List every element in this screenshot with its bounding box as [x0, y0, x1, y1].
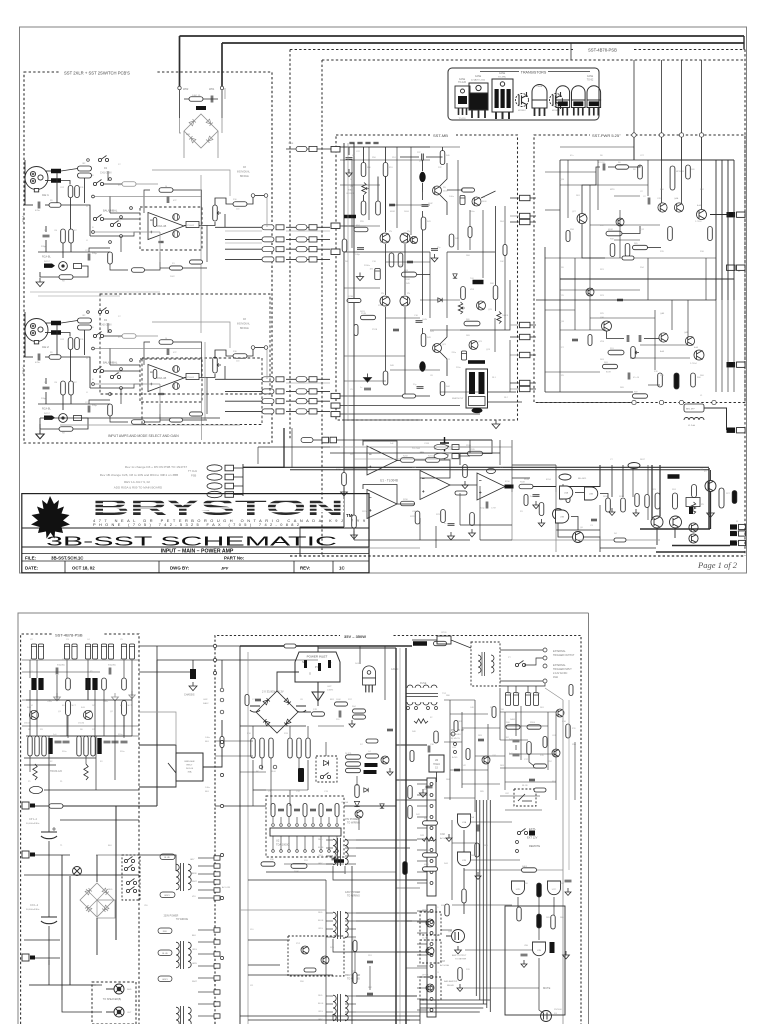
- wire p2 dens h 3: [22, 725, 139, 727]
- wire p2 bs h 3: [248, 939, 290, 941]
- capacitor C p2 x2: [387, 729, 393, 731]
- wire mb dens h 8: [386, 317, 420, 319]
- wire r55 v: [363, 195, 365, 201]
- module box mute circuit: [505, 906, 565, 1015]
- wire pwr dens v 15: [733, 300, 735, 392]
- switch RL02 a: [124, 857, 134, 863]
- switch RL02 c: [126, 879, 136, 885]
- wire th wires2: [221, 90, 223, 118]
- winding TX 15V primary: [333, 839, 336, 865]
- label oval BLU2: [158, 950, 172, 956]
- wire ch2x h 196: [95, 348, 201, 350]
- wire p2 dens v 18: [270, 758, 272, 810]
- svg-text:7000'S: 7000'S: [502, 315, 509, 317]
- resistor R 4000: [423, 867, 438, 871]
- wire pad wire r 5: [530, 354, 536, 356]
- wire cn stem2: [48, 926, 50, 965]
- resistor R og1: [635, 494, 639, 507]
- label oval BLUE: [160, 854, 175, 860]
- resistor R pu: [434, 731, 438, 743]
- resistor R12 CH1: [68, 186, 73, 198]
- svg-text:BLK: BLK: [108, 845, 113, 847]
- wire left feed: [35, 805, 49, 807]
- wire ch1x h 196: [95, 196, 201, 198]
- wire rt01 w: [412, 639, 437, 641]
- resistor R536: [455, 491, 467, 495]
- wire mb dens h 6: [344, 287, 380, 289]
- wire pwr dens h 2: [560, 184, 648, 186]
- wire main h2 CH1: [45, 204, 49, 206]
- wire bundle h 2: [420, 1007, 483, 1009]
- wire p2 lm 3: [156, 646, 158, 660]
- wire pwr dens v 9: [671, 300, 673, 330]
- wire p2 dens h 9: [240, 645, 318, 647]
- connector strip L row 6: [214, 928, 220, 932]
- svg-text:RA02: RA02: [203, 702, 209, 705]
- connector strip L row 13: [214, 1014, 220, 1018]
- terminal t5 CH1: [109, 241, 112, 244]
- ground gnd og1: [611, 508, 613, 512]
- resistor R feedback 470 CH2: [159, 340, 173, 345]
- wire pad wire r 6: [530, 382, 536, 384]
- svg-text:TO-126: TO-126: [458, 118, 466, 120]
- resistor R out1: [655, 493, 660, 509]
- wire left mid wire: [35, 854, 70, 856]
- wire out rail drop heavy: [708, 468, 710, 529]
- svg-text:BLUE: BLUE: [318, 1003, 324, 1005]
- svg-text:CH-1: CH-1: [21, 215, 25, 222]
- dashed box CH2 DOA outer: [142, 358, 262, 425]
- capacitor C tda 1: [278, 809, 284, 811]
- wire p2 lb h 5: [63, 805, 139, 807]
- wire bus to MB row 0: [286, 226, 330, 228]
- resistor R mid col b 0: [288, 738, 292, 758]
- wire p2 dens h 8: [296, 659, 318, 661]
- wire p2 mr h 5: [505, 781, 556, 783]
- resistor R mid col a 2: [269, 738, 273, 758]
- wire main h CH2: [25, 356, 33, 358]
- svg-text:W01: W01: [209, 87, 215, 91]
- label oval GREY: [160, 892, 175, 898]
- wire psb stack wire 1: [234, 476, 244, 478]
- wire box1 h 2: [107, 171, 109, 181]
- wire p2 mh 3: [248, 974, 333, 976]
- connector P06 row 0 CH1: [262, 225, 274, 230]
- wire strip L wire 6: [198, 929, 214, 931]
- wire tda pin wire 8: [336, 817, 338, 823]
- wire p2 mv 3: [359, 646, 361, 664]
- wire mb dens v 1: [368, 147, 370, 220]
- pin 7 U2: [320, 824, 323, 827]
- wire cn1 lead 8: [417, 998, 427, 1000]
- relay module UNITE PLT: [466, 369, 488, 408]
- wire cn1 lead 2: [417, 932, 427, 934]
- wire bundle h 3: [420, 1011, 480, 1013]
- transistor driver Q mid A: [553, 509, 564, 520]
- connector P06 row 1 CH1: [262, 237, 274, 242]
- wire p2 mh 1: [248, 879, 326, 881]
- ground gnd left col: [39, 430, 41, 434]
- wire strip L wire 7: [198, 941, 214, 943]
- resistor dark bank b 1: [92, 678, 97, 690]
- resistor RB01: [196, 106, 206, 110]
- resistor R top mid2: [434, 641, 447, 645]
- connector page2 left 3: [22, 954, 29, 961]
- resistor R 1K2: [346, 768, 361, 772]
- capacitor C20: [627, 335, 629, 342]
- svg-text:RED: RED: [108, 889, 113, 891]
- wire PWR top drop 2: [681, 137, 683, 160]
- wire p2 lv 3: [114, 736, 116, 780]
- wire p2 mr h 0: [500, 711, 556, 713]
- wire reg rail: [396, 799, 436, 801]
- diode D mb 1: [438, 298, 442, 302]
- wire heavy mid v2: [405, 648, 407, 1024]
- wire trig net2: [515, 712, 517, 736]
- transistor Q6 PN5551A: [400, 296, 410, 306]
- resistor R mr 1: [543, 737, 547, 748]
- resistor P12B DIR2: [361, 315, 376, 319]
- connector P06 row 0 CH2: [262, 377, 274, 382]
- resistor R mb x1: [468, 227, 472, 238]
- wire p2 dens v 1: [36, 660, 38, 678]
- wire ch1 out v: [206, 226, 208, 263]
- connector page2 left 1: [22, 802, 29, 809]
- svg-text:R61?: R61?: [640, 459, 646, 461]
- svg-text:JPV: JPV: [221, 567, 229, 571]
- wire ch2x pill col: [175, 414, 177, 426]
- svg-text:FILE:: FILE:: [25, 556, 37, 561]
- wire mb dens v 0: [351, 160, 353, 248]
- wire fb loop CH1: [144, 190, 150, 213]
- capacitor C318 dark: [440, 437, 449, 451]
- capacitor dark mid: [298, 768, 304, 782]
- wire heavy h mid2: [396, 744, 427, 746]
- resistor R05 100R: [633, 245, 648, 249]
- capacitor C7 22P: [422, 154, 424, 161]
- svg-text:U7C: U7C: [552, 889, 557, 891]
- wire p2 lb v 6: [114, 700, 116, 736]
- wire R out a CH2: [61, 321, 78, 324]
- resistor R230 13K: [401, 501, 415, 506]
- wire tda pin wire 4: [304, 817, 306, 823]
- wire p2b h 7: [444, 797, 475, 799]
- svg-text:AC LOW: AC LOW: [222, 886, 230, 889]
- resistor R15: [668, 227, 673, 241]
- wire p2 mr v 4: [574, 742, 576, 800]
- connector MB-PWR pad 0: [520, 195, 531, 200]
- wire TX 120V lead L 1: [326, 920, 333, 922]
- svg-text:L1 2uH: L1 2uH: [688, 425, 695, 427]
- wire xlr to R CH2: [45, 322, 51, 324]
- svg-text:220p: 220p: [92, 405, 98, 407]
- resistor R input b CH1: [51, 178, 61, 183]
- wire mb long v7: [422, 211, 424, 217]
- connector P03 row 1: [296, 237, 307, 242]
- wire p2 dens v 0: [29, 660, 31, 678]
- resistor R mid col a 1: [260, 738, 264, 758]
- capacitor C pwr x1: [617, 299, 623, 301]
- wire strip L wire 8: [198, 953, 214, 955]
- resistor R bs 2: [353, 941, 357, 952]
- svg-text:R71B: R71B: [348, 296, 354, 298]
- resistor R small dark: [689, 507, 693, 514]
- wire p10 wire: [313, 439, 322, 441]
- switch RL02 b: [124, 865, 134, 871]
- wire pwr right rail 3: [733, 160, 735, 300]
- transistor mosfet meter: [446, 930, 465, 943]
- resistor R out6: [606, 498, 611, 512]
- wire pwr right rail 1: [721, 160, 723, 300]
- wire gate v2: [463, 868, 465, 889]
- connector TB fan 1: [434, 453, 448, 459]
- gate U7A: [458, 814, 471, 828]
- wire TX 15V lead L 3: [326, 863, 333, 865]
- legend package TO-220: [469, 83, 488, 118]
- switch S1b CH2: [93, 367, 103, 373]
- wire bot dens v 4: [511, 440, 513, 492]
- svg-text:CH 2: CH 2: [42, 345, 49, 349]
- wire bot dens v 8: [647, 465, 649, 520]
- diode D bridge mid diode: [263, 698, 270, 705]
- wire pwr c27 r: [608, 166, 615, 168]
- wire c1 gnd CH1: [45, 240, 47, 252]
- svg-text:U3B: U3B: [589, 494, 594, 496]
- wire cn0 lead 9: [417, 882, 427, 884]
- ground gnd ge: [523, 960, 525, 964]
- wire og w4: [562, 484, 564, 486]
- wire trig rail: [500, 683, 545, 686]
- dashed box inner top: [322, 59, 745, 61]
- wire p2b v 4: [451, 820, 453, 900]
- Bryston maple leaf logo: [31, 496, 70, 539]
- wire TX 15V lead R 2: [345, 855, 356, 857]
- wire reg v wire: [436, 772, 438, 782]
- wire pwr dens h 10: [590, 317, 655, 319]
- svg-text:ORG: ORG: [318, 1011, 323, 1013]
- wire gray bus comp 2: [225, 242, 262, 244]
- resistor R 2K b: [346, 762, 361, 766]
- svg-text:330u: 330u: [62, 751, 66, 753]
- op-amp U1A: [367, 446, 397, 475]
- wire TX 15V lead R 3: [345, 863, 356, 865]
- wire pwr dens h 13: [630, 357, 690, 359]
- svg-text:REV 1A JULY 9, 02: REV 1A JULY 9, 02: [124, 480, 150, 484]
- svg-text:U7A: U7A: [462, 821, 467, 824]
- wire pwr v mid1: [661, 160, 663, 203]
- wire tda pin b wire 8: [336, 836, 338, 850]
- resistor R gd4: [551, 915, 555, 929]
- wire pwr dens h 4: [545, 209, 560, 211]
- capacitor C6 27p: [417, 387, 424, 389]
- svg-text:240p: 240p: [355, 254, 361, 256]
- svg-text:GREY: GREY: [164, 895, 171, 897]
- connector P03 row 0: [296, 225, 307, 230]
- wire diag to bridger: [168, 763, 176, 773]
- svg-text:TRANSISTORS: TRANSISTORS: [521, 71, 547, 75]
- capacitor Cb1: [104, 741, 111, 743]
- svg-text:U3B: U3B: [560, 517, 565, 519]
- resistor R col b dark: [97, 738, 101, 754]
- gate U7E: [533, 942, 546, 956]
- wire p2 dens h 13: [240, 771, 266, 773]
- svg-text:CASE: CASE: [587, 75, 594, 78]
- wire bot dens v 5: [555, 465, 557, 510]
- resistor R40: [440, 151, 445, 165]
- connector strip L row 4: [214, 888, 220, 892]
- IC LM7812 regulator: [429, 755, 444, 772]
- svg-text:OFFSET: OFFSET: [346, 193, 355, 195]
- switch S1a CH2: [93, 332, 103, 338]
- resistor R pwr x2: [588, 335, 592, 346]
- wire bus row 0 CH2: [215, 378, 262, 380]
- wire pwr dens v 7: [654, 310, 656, 370]
- ground gnd R537: [471, 529, 473, 533]
- wire mid rail 726: [240, 725, 306, 727]
- resistor R g2: [462, 889, 466, 903]
- svg-text:CN2: CN2: [440, 833, 445, 836]
- winding rear switch coil2: [491, 655, 494, 673]
- terminal t2 CH1: [109, 178, 112, 181]
- wire p2 lb v 4: [87, 690, 89, 700]
- svg-text:680R: 680R: [608, 229, 613, 231]
- resistor R MCT 1: [66, 701, 71, 716]
- svg-text:MOSFET: MOSFET: [518, 110, 527, 112]
- wire p2 dens h 20: [396, 951, 427, 953]
- transistor Q mid: [355, 810, 363, 818]
- resistor R out7: [621, 498, 626, 512]
- capacitor C p2 x1: [255, 699, 261, 701]
- wire ch1x v 160a: [159, 232, 161, 262]
- transistor Q27: [577, 214, 587, 224]
- svg-text:RCA-BL: RCA-BL: [42, 408, 51, 411]
- resistor R62 MPSU10: [670, 166, 675, 190]
- svg-text:TO WIRING: TO WIRING: [347, 822, 360, 825]
- ground gnd reg: [422, 789, 424, 793]
- wire u1b out: [397, 503, 415, 505]
- wire bundle v 1: [479, 800, 481, 1000]
- resistor R p2 x2: [220, 737, 224, 748]
- svg-text:BLK: BLK: [192, 935, 197, 937]
- resistor R col a dark: [48, 738, 52, 754]
- capacitor C p2b 1: [478, 739, 484, 741]
- connector MB-PWR pad 1: [520, 213, 531, 218]
- resistor VR4: [631, 347, 636, 359]
- wire tx to cn wires4: [356, 920, 412, 922]
- resistor D 7805 b: [364, 770, 377, 774]
- capacitor C16 240p: [357, 248, 364, 250]
- capacitor C 220: [339, 711, 341, 718]
- resistor R7 21K5 CH1: [69, 229, 74, 243]
- svg-text:470u: 470u: [35, 210, 41, 212]
- wire bot dens h 6: [600, 547, 656, 549]
- wire strip L wire 11: [198, 991, 214, 993]
- wire spk wires: [29, 984, 102, 986]
- resistor R 2008: [261, 862, 275, 866]
- dashed box RL02 contacts: [122, 855, 140, 900]
- wire pwr dens h 3: [614, 195, 640, 197]
- wire gate out w: [463, 903, 465, 914]
- resistor R14 CH2: [132, 420, 145, 425]
- wire bundle h 0: [420, 999, 490, 1001]
- capacitor C bs 2: [367, 993, 373, 995]
- wire tx to cn wires5: [356, 995, 417, 997]
- svg-text:EXTERNAL: EXTERNAL: [553, 650, 566, 653]
- transistor Q25: [477, 301, 486, 310]
- connector strip L row 10: [214, 976, 220, 980]
- resistor R mid col b 1: [297, 738, 301, 758]
- wire out heavy 5: [651, 465, 653, 520]
- dashed box PSB outer: [289, 50, 291, 441]
- svg-text:3B-SST.SCH.1C: 3B-SST.SCH.1C: [51, 556, 84, 561]
- capacitor C mbrow 0: [349, 142, 354, 143]
- wire out heavy 6: [659, 465, 661, 516]
- svg-text:1u: 1u: [352, 155, 354, 157]
- resistor R zig out: [691, 502, 695, 514]
- wire heavy mid v1: [395, 648, 397, 1024]
- terminal p2 t3: [220, 804, 223, 807]
- wire box1 h 3: [107, 323, 109, 333]
- resistor R mr 2: [534, 788, 546, 792]
- pin bottom 6 U2: [312, 850, 315, 853]
- wire bot dens v 6: [599, 505, 601, 537]
- resistor R50: [361, 163, 366, 177]
- wire mid connective 1: [224, 88, 226, 99]
- resistor ch2x R mid low: [190, 412, 203, 416]
- wire pad wire r 3: [530, 324, 536, 326]
- resistor R0 x: [616, 165, 629, 169]
- wire p2 gate h 2: [470, 859, 520, 861]
- capacitor C302 1u: [448, 524, 455, 526]
- wire out heavy 3: [656, 551, 745, 553]
- wire bridge out: [298, 711, 311, 713]
- capacitor C 2u2 a: [513, 740, 520, 742]
- connector strip L row 0: [214, 856, 220, 860]
- resistor R11 CH1: [75, 186, 80, 198]
- wire p1 b1 h 1: [38, 295, 120, 297]
- wire p2b v 3: [487, 724, 489, 800]
- lamp oval: [30, 786, 43, 793]
- title block row line 1: [22, 527, 369, 529]
- wire bus bend bottom: [300, 527, 344, 556]
- wire p2b v 5: [499, 688, 501, 740]
- wire main h3 CH1: [61, 205, 90, 236]
- svg-text:50,000uF/80v: 50,000uF/80v: [26, 823, 40, 825]
- wire strip L v: [224, 855, 226, 1024]
- wire p2b v 2: [474, 700, 476, 812]
- wire p2 gate h 5: [441, 929, 452, 931]
- ground gnd p2 x1: [389, 768, 391, 772]
- gate U7C: [548, 881, 561, 895]
- svg-text:N: N: [302, 660, 304, 664]
- dashed box DOA CH1: [140, 207, 202, 250]
- transistor driver Q mid B: [573, 532, 584, 543]
- wire pwr mid v: [633, 137, 635, 160]
- svg-text:BLK: BLK: [205, 741, 210, 743]
- wire out heavy 2: [672, 545, 730, 547]
- wire tda pin b wire 5: [312, 836, 314, 850]
- resistor R06b: [539, 503, 544, 516]
- svg-text:35V – 350W: 35V – 350W: [344, 634, 366, 639]
- wire mid long w2: [239, 646, 241, 1024]
- connector J1 right: [727, 265, 736, 270]
- connector P06 row 2 CH2: [262, 399, 274, 404]
- wire tda pin b wire 1: [280, 836, 282, 850]
- svg-text:TR030-120: TR030-120: [50, 770, 63, 773]
- terminal PWR bottom terminal 1: [659, 400, 663, 404]
- wire bot dens h 1: [512, 464, 556, 466]
- wire trig wires: [500, 649, 543, 651]
